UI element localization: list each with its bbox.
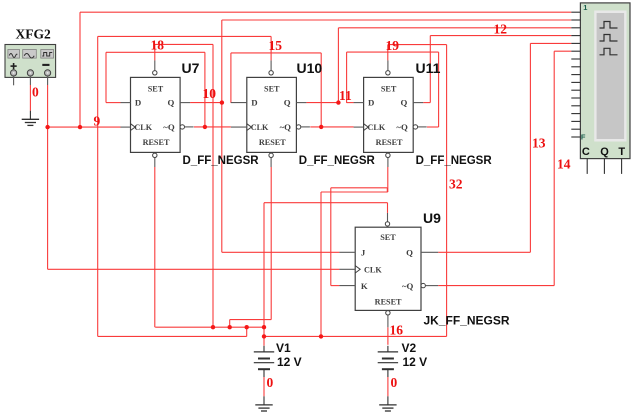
junction U10 ~Q node: [319, 125, 323, 129]
wire net 15 drop to bus: [97, 36, 99, 336]
U11 SET bubble: [386, 71, 390, 75]
U10 CLK edge triangle: [247, 124, 252, 131]
V1 plate short bottom: [258, 368, 270, 370]
svg-text:U9: U9: [423, 210, 441, 226]
svg-text:15: 15: [269, 38, 283, 53]
logic analyzer pulse icons: [600, 22, 618, 29]
svg-text:SET: SET: [148, 84, 164, 93]
voltage source V1 top stub: [263, 346, 265, 352]
U11 ~Q pin stub: [418, 126, 427, 128]
svg-text:D: D: [251, 98, 257, 108]
svg-text:0: 0: [32, 85, 39, 100]
wire U7 D-feedback right: [204, 52, 206, 127]
wire net 13 riser: [529, 43, 531, 252]
logic analyzer screen: [594, 11, 626, 142]
wire U9 SET drop / V1 feed: [263, 203, 265, 346]
wire net 10 riser: [221, 20, 223, 252]
D flip-flop U10 body: [247, 77, 297, 152]
wire U11 RESET upper drop: [387, 167, 389, 192]
U7 CLK edge triangle: [131, 124, 136, 131]
svg-text:J: J: [361, 248, 366, 258]
wire U9 K input: [331, 285, 340, 287]
svg-text:0: 0: [391, 375, 398, 390]
U7 CLK pin stub: [121, 126, 131, 128]
U7 SET pin stub: [154, 60, 156, 70]
svg-text:RESET: RESET: [376, 138, 403, 147]
V1 plate short: [258, 358, 270, 360]
svg-text:D: D: [368, 98, 374, 108]
wire net 12 riser: [337, 28, 339, 103]
wire K jog: [386, 188, 388, 192]
wire XFG2 minus down: [47, 85, 49, 127]
junction U10 Q node: [336, 100, 340, 104]
U9 CLK pin stub: [339, 268, 355, 270]
wire V1 to ground: [263, 377, 265, 396]
V1 plate long top: [254, 351, 274, 353]
wire XFG2 common to ground: [29, 85, 31, 111]
wire U11 Q to analyzer pin 4: [430, 35, 571, 37]
wire U10 Q output: [306, 102, 338, 104]
wire net 19 horizontal: [388, 44, 447, 46]
U11 RESET bubble: [386, 153, 390, 157]
V2 plate long top: [378, 351, 398, 353]
svg-text:1: 1: [583, 3, 587, 12]
wire U11 D-feedback left: [346, 52, 348, 103]
U9 ~Q bubble: [421, 283, 425, 287]
wire U11 D-feedback right: [438, 52, 440, 127]
wire net 9 down: [47, 127, 49, 269]
U11 RESET pin stub: [387, 158, 389, 167]
U11 CLK edge triangle: [364, 124, 369, 131]
XFG2 plus pin stub: [13, 76, 15, 85]
svg-text:V1: V1: [276, 341, 291, 355]
wire net 9 to analyzer pin 1: [80, 11, 571, 13]
svg-text:D: D: [135, 98, 141, 108]
wire U11 RESET run: [321, 191, 388, 193]
svg-text:JK_FF_NEGSR: JK_FF_NEGSR: [424, 314, 510, 328]
wire V2 feed: [387, 327, 389, 345]
wire U7 ~Q to U10 CLK: [194, 126, 231, 128]
wire net 15 horizontal: [98, 35, 271, 37]
XFG2 sine button: [8, 50, 20, 59]
XFG2 common terminal: [27, 70, 33, 76]
U10 CLK pin stub: [231, 126, 247, 128]
wire net 12 to analyzer pin 3: [338, 27, 571, 29]
wire U11 D input: [347, 102, 354, 104]
wire U7 D-feedback top: [106, 51, 205, 53]
wire net 18 drop to bus: [212, 44, 214, 327]
wire U7 D-feedback left: [105, 52, 107, 102]
U11 SET pin stub: [387, 60, 389, 70]
XFG2 minus sign: [42, 64, 49, 66]
U10 D pin stub: [231, 102, 247, 104]
wire U7 D input: [106, 102, 121, 104]
wire bus A: [155, 326, 264, 328]
U10 ~Q bubble: [296, 125, 300, 129]
svg-text:11: 11: [339, 88, 352, 103]
wire U10 RESET drop: [270, 167, 272, 320]
svg-text:~Q: ~Q: [396, 122, 408, 132]
svg-text:32: 32: [449, 177, 463, 192]
wire net 14 riser: [553, 51, 555, 285]
U7 ~Q pin stub: [185, 126, 194, 128]
U9 SET bubble: [385, 222, 389, 226]
svg-text:K: K: [361, 281, 368, 291]
svg-text:V2: V2: [402, 341, 417, 355]
wire U11 Q riser: [429, 36, 431, 103]
U9 SET wire riser: [387, 203, 389, 213]
U7 RESET pin stub: [154, 158, 156, 167]
svg-text:12 V: 12 V: [277, 355, 302, 369]
function generator XFG2 body: [5, 45, 56, 78]
XFG2 common pin stub: [29, 76, 31, 85]
svg-text:RESET: RESET: [375, 297, 402, 306]
wire net 18 horizontal: [155, 43, 213, 45]
U7 ~Q bubble: [180, 125, 184, 129]
wire bus A-B link: [246, 327, 248, 336]
svg-text:Q: Q: [600, 146, 609, 158]
svg-text:U7: U7: [182, 60, 200, 76]
voltage source V2 top stub: [387, 346, 389, 352]
svg-text:SET: SET: [380, 233, 396, 242]
V2 plate short bottom: [382, 368, 394, 370]
U7 D pin stub: [121, 102, 131, 104]
wire U9 K riser top: [331, 187, 388, 189]
junction U7 Q node: [220, 100, 224, 104]
svg-text:U10: U10: [297, 60, 323, 76]
svg-text:CLK: CLK: [368, 123, 386, 132]
U9 ~Q pin stub: [425, 285, 438, 287]
V1 plate long bottom: [254, 362, 274, 364]
U10 Q pin stub: [296, 102, 306, 104]
svg-text:Q: Q: [284, 98, 291, 108]
ground at XFG2: [29, 111, 31, 120]
junction U11 RESET on bus B: [319, 334, 323, 338]
ground at V2: [387, 396, 389, 405]
svg-text:D_FF_NEGSR: D_FF_NEGSR: [299, 155, 376, 167]
junction link on bus A: [245, 325, 249, 329]
logic analyzer XLA1 body: [580, 3, 630, 159]
U10 SET bubble: [269, 71, 273, 75]
svg-text:13: 13: [532, 136, 546, 151]
svg-text:12: 12: [494, 22, 508, 37]
junction U7 ~Q node: [203, 125, 207, 129]
wire U10 ~Q to U11 CLK: [310, 126, 353, 128]
wire U10 RESET to bus A: [229, 320, 231, 328]
svg-text:XFG2: XFG2: [16, 27, 51, 42]
wire bus B right: [264, 335, 447, 337]
wire U11 D-feedback top: [347, 51, 439, 53]
svg-text:CLK: CLK: [134, 123, 152, 132]
wire net 18 riser to U7 SET: [154, 44, 156, 60]
wire U9 Q output: [438, 251, 530, 253]
svg-text:T: T: [618, 146, 625, 158]
U10 RESET bubble: [269, 153, 273, 157]
svg-text:0: 0: [267, 375, 274, 390]
U10 ~Q pin stub: [301, 126, 310, 128]
junction XFG2 minus / net 9: [45, 125, 49, 129]
junction U10 RESET on bus A: [228, 325, 232, 329]
wire U7 RESET drop: [154, 167, 156, 327]
wire net 9 to U9 CLK: [48, 268, 340, 270]
svg-text:19: 19: [386, 38, 400, 53]
svg-text:14: 14: [557, 157, 571, 172]
wire U10 D-feedback right: [320, 53, 322, 127]
svg-text:Q: Q: [401, 98, 408, 108]
svg-text:CLK: CLK: [364, 266, 382, 275]
wire U7 Q output: [190, 102, 222, 104]
wire net 10 to U9 J: [222, 251, 340, 253]
svg-text:U11: U11: [416, 60, 441, 76]
svg-text:Q: Q: [406, 248, 413, 258]
wire net 9 riser: [79, 12, 81, 127]
wire U9 SET run: [264, 202, 388, 204]
XFG2 triangle button: [23, 50, 37, 59]
wire net 14 to analyzer pin 6: [554, 50, 571, 52]
XFG2 minus terminal: [45, 70, 51, 76]
XFG2 plus sign: [11, 65, 17, 67]
JK flip-flop U9 body: [355, 227, 421, 310]
XFG2 minus pin stub: [47, 76, 49, 85]
V2 plate long bottom: [378, 362, 398, 364]
U9 J pin stub: [339, 251, 355, 253]
junction net 9 riser: [78, 125, 82, 129]
wire net 13 to analyzer pin 5: [530, 42, 571, 44]
wire U10 D-feedback left: [230, 53, 232, 103]
svg-text:9: 9: [94, 114, 101, 129]
U7 Q pin stub: [180, 102, 190, 104]
svg-text:~Q: ~Q: [163, 122, 175, 132]
svg-text:Q: Q: [167, 98, 174, 108]
U9 Q pin stub: [421, 251, 438, 253]
D flip-flop U11 body: [364, 77, 414, 152]
svg-text:~Q: ~Q: [280, 122, 292, 132]
svg-text:RESET: RESET: [259, 138, 286, 147]
wire U9 ~Q output: [438, 285, 554, 287]
logic analyzer input pins: [571, 11, 580, 13]
wire U11 RESET drop to bus: [320, 192, 322, 336]
wire bus B left: [98, 335, 247, 337]
U11 D pin stub: [354, 102, 364, 104]
wire U11 Q output: [423, 102, 430, 104]
wire V2 to ground: [387, 377, 389, 396]
U9 RESET bubble: [386, 311, 390, 315]
junction V1 on bus B: [262, 334, 266, 338]
svg-text:12 V: 12 V: [403, 355, 428, 369]
U10 SET pin stub: [270, 60, 272, 70]
wire net 9 to U7 CLK: [48, 126, 121, 128]
svg-text:D_FF_NEGSR: D_FF_NEGSR: [416, 155, 493, 167]
U7 SET bubble: [153, 71, 157, 75]
V2 bottom stub: [387, 369, 389, 377]
wire net 19 riser to U11 SET: [387, 45, 389, 61]
V2 plate short: [382, 358, 394, 360]
svg-text:SET: SET: [264, 84, 280, 93]
svg-text:18: 18: [151, 38, 165, 53]
U9 K pin stub: [339, 285, 355, 287]
junction net 18 on bus A: [211, 325, 215, 329]
U9 CLK edge triangle: [355, 266, 360, 273]
U11 ~Q bubble: [413, 125, 417, 129]
D flip-flop U7 body: [131, 77, 181, 152]
svg-text:F: F: [581, 132, 586, 141]
svg-text:16: 16: [390, 323, 404, 338]
wire U9 K riser: [330, 188, 332, 286]
svg-text:C: C: [582, 146, 590, 158]
XFG2 plus terminal: [11, 70, 17, 76]
junction V1 on bus A: [262, 325, 266, 329]
svg-text:SET: SET: [381, 84, 397, 93]
U7 RESET bubble: [153, 153, 157, 157]
svg-text:CLK: CLK: [251, 123, 269, 132]
wire U11 ~Q output: [427, 126, 439, 128]
U10 RESET pin stub: [270, 158, 272, 167]
V1 bottom stub: [263, 369, 265, 377]
wire net 10 to analyzer pin 2: [222, 19, 572, 21]
U11 Q pin stub: [413, 102, 423, 104]
logic analyzer bottom pins: [586, 159, 588, 174]
ground at V1: [263, 396, 265, 405]
wire U10 D-feedback top: [231, 52, 321, 54]
svg-text:RESET: RESET: [143, 138, 170, 147]
U9 SET pin stub: [387, 213, 389, 222]
wire U10 RESET run: [230, 319, 272, 321]
U9 RESET pin stub: [387, 315, 389, 327]
wire net 19/32 drop to bus: [446, 45, 448, 337]
svg-text:10: 10: [203, 86, 217, 101]
svg-text:~Q: ~Q: [402, 281, 414, 291]
XFG2 square button: [41, 50, 54, 59]
wire net 15 riser to U10 SET: [270, 36, 272, 60]
U11 CLK pin stub: [354, 126, 364, 128]
svg-text:D_FF_NEGSR: D_FF_NEGSR: [183, 155, 260, 167]
